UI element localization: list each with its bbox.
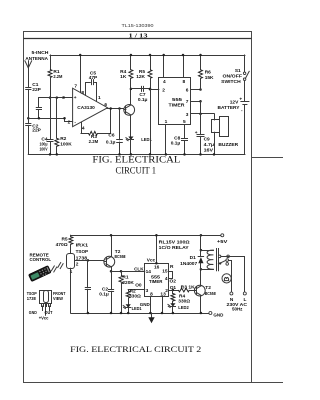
svg-text:1: 1 bbox=[165, 119, 168, 125]
svg-text:CA3130: CA3130 bbox=[77, 105, 95, 111]
capacitor C1 (circuit2, unlabeled) bbox=[87, 260, 89, 287]
svg-text:C8: C8 bbox=[174, 135, 180, 141]
capacitor C4 electrolytic bbox=[50, 98, 52, 140]
svg-text:330Ω: 330Ω bbox=[178, 299, 190, 305]
capacitor C8 on pin5 bbox=[184, 125, 186, 139]
svg-text:5: 5 bbox=[183, 119, 186, 125]
svg-text:555: 555 bbox=[172, 97, 182, 103]
svg-text:BUZZER: BUZZER bbox=[218, 142, 238, 148]
svg-text:R2: R2 bbox=[130, 289, 136, 295]
svg-text:1K: 1K bbox=[120, 74, 127, 80]
svg-text:VIEW: VIEW bbox=[53, 296, 63, 302]
svg-text:0.1μ: 0.1μ bbox=[106, 140, 116, 146]
buzzer BZ1 bbox=[212, 120, 220, 133]
svg-text:TSOP: TSOP bbox=[76, 249, 89, 255]
svg-text:CIRCUIT 1: CIRCUIT 1 bbox=[116, 167, 157, 177]
svg-text:1C/O RELAY: 1C/O RELAY bbox=[159, 245, 190, 251]
svg-text:47P: 47P bbox=[89, 75, 98, 81]
wire: circuit2 ground bottom rail bbox=[71, 313, 209, 315]
svg-text:R2: R2 bbox=[60, 136, 66, 142]
svg-text:2: 2 bbox=[76, 262, 79, 268]
wire op-amp pin3 input bbox=[39, 97, 73, 99]
wire op-amp pin4 down bbox=[81, 122, 83, 133]
svg-text:R1: R1 bbox=[122, 275, 128, 281]
wire TSOP gnd pin down bbox=[70, 268, 72, 313]
svg-text:FIG. ELECTRICAL: FIG. ELECTRICAL bbox=[92, 155, 180, 165]
wire Q1 collector up bbox=[130, 89, 132, 105]
svg-text:R: R bbox=[170, 264, 174, 270]
resistor R4 bbox=[130, 55, 132, 70]
svg-text:TIMER: TIMER bbox=[149, 279, 163, 285]
wire pole contact to lamp/N bbox=[228, 261, 231, 293]
terminal N bbox=[230, 292, 233, 295]
antenna symbol bbox=[25, 61, 28, 68]
svg-text:L: L bbox=[244, 297, 247, 303]
capacitor C1 bbox=[26, 87, 31, 89]
svg-text:+Vcc: +Vcc bbox=[39, 315, 49, 321]
svg-text:T2: T2 bbox=[115, 249, 121, 255]
capacitor C9 electrolytic bbox=[200, 101, 202, 134]
svg-text:+: + bbox=[195, 131, 198, 136]
resistor R1 220K bbox=[120, 270, 123, 273]
wire output feedback down bbox=[110, 109, 112, 134]
svg-text:1N4007: 1N4007 bbox=[180, 261, 197, 267]
svg-text:3: 3 bbox=[146, 288, 149, 294]
wire antenna down bbox=[28, 68, 30, 87]
svg-text:50Hz: 50Hz bbox=[232, 306, 243, 312]
svg-text:15K: 15K bbox=[205, 75, 214, 81]
diode D1 1N4007 bbox=[200, 250, 202, 256]
svg-text:6: 6 bbox=[186, 88, 189, 94]
svg-text:8: 8 bbox=[81, 90, 84, 96]
svg-text:O0: O0 bbox=[135, 283, 142, 289]
wire R1 to pin3 node bbox=[50, 78, 52, 98]
IR beam marks bbox=[51, 266, 54, 271]
IC 555 timer (circuit 1) bbox=[159, 78, 191, 125]
svg-text:1738: 1738 bbox=[27, 296, 36, 302]
svg-text:22P: 22P bbox=[32, 87, 41, 93]
wire IC pin3 output O0 bbox=[128, 289, 145, 291]
wire pin2 node to 555 and ground bbox=[150, 89, 159, 91]
relay coil bbox=[201, 250, 214, 252]
svg-text:C6: C6 bbox=[108, 133, 114, 139]
svg-text:1: 1 bbox=[98, 95, 101, 101]
terminal GND (mains side) bbox=[209, 312, 212, 315]
wire input rail to pin2 jog bbox=[28, 119, 72, 122]
wire TSOP out to Q2 base bbox=[75, 260, 104, 262]
wire Q3 collector up to relay bbox=[200, 269, 202, 285]
svg-text:GND: GND bbox=[213, 313, 223, 319]
svg-text:IRX1: IRX1 bbox=[76, 243, 89, 249]
svg-text:1 / 13: 1 / 13 bbox=[129, 33, 148, 40]
svg-text:4.7μ: 4.7μ bbox=[204, 142, 215, 148]
resistor R5 470ohm bbox=[70, 235, 72, 236]
svg-text:16V: 16V bbox=[204, 147, 214, 153]
wire 555 pin8 to rail bbox=[183, 55, 185, 77]
transistor Q1 driver bbox=[124, 105, 135, 116]
svg-text:OUT: OUT bbox=[45, 310, 53, 316]
svg-text:RL15V 100Ω: RL15V 100Ω bbox=[159, 240, 190, 246]
LED1 bbox=[128, 137, 133, 140]
svg-text:C9: C9 bbox=[204, 137, 210, 143]
svg-text:N: N bbox=[230, 297, 234, 303]
terminal +5V bbox=[221, 234, 224, 237]
TSOP pins bbox=[42, 304, 44, 307]
svg-text:2.2M: 2.2M bbox=[89, 139, 99, 145]
node: antenna/input rail junction bbox=[27, 117, 30, 120]
svg-text:100K: 100K bbox=[60, 141, 72, 147]
svg-text:Vcc: Vcc bbox=[147, 257, 156, 263]
svg-text:D1: D1 bbox=[190, 255, 196, 261]
svg-text:15: 15 bbox=[162, 269, 168, 275]
resistor R3 bbox=[81, 133, 89, 135]
wire 555 pin1 to ground bbox=[165, 125, 167, 155]
capacitor C3 (unlabeled) bbox=[38, 98, 40, 108]
capacitor C5 compensation loop bbox=[86, 83, 91, 96]
terminal L bbox=[243, 292, 246, 295]
wire Q2 collector down / clock node bbox=[111, 267, 113, 272]
svg-text:S1: S1 bbox=[235, 68, 241, 74]
IC U2 decade counter (drawn as 555 TIMER) bbox=[145, 264, 169, 297]
remote control handset graphic bbox=[28, 266, 51, 282]
svg-text:12V: 12V bbox=[230, 100, 239, 106]
wire 555 pin3 output bbox=[191, 113, 214, 115]
svg-text:GND: GND bbox=[140, 302, 150, 308]
svg-text:ON/OFF: ON/OFF bbox=[223, 73, 243, 79]
svg-text:LED2: LED2 bbox=[178, 305, 189, 311]
relay RL1 coil + diode D1 bbox=[200, 234, 203, 237]
LED2 bbox=[172, 301, 174, 303]
wire IC pin2 output O1 bbox=[169, 290, 179, 292]
wire IC pin8 to ground bbox=[150, 296, 152, 313]
svg-text:8: 8 bbox=[182, 79, 185, 85]
svg-text:0.1μ: 0.1μ bbox=[171, 141, 181, 147]
svg-text:100V: 100V bbox=[40, 146, 49, 152]
svg-text:BC558: BC558 bbox=[205, 291, 216, 297]
wire clock to IC pin14 bbox=[111, 271, 145, 273]
wire NO contact to L terminal bbox=[221, 257, 245, 293]
wire op-amp pin7 to +V rail bbox=[80, 55, 82, 93]
svg-text:2: 2 bbox=[162, 88, 165, 94]
battery B1 12V bbox=[244, 80, 246, 101]
svg-text:O2: O2 bbox=[170, 279, 177, 285]
wire IC pin13 to ground bbox=[162, 296, 164, 313]
svg-text:6: 6 bbox=[104, 102, 107, 108]
svg-text:+: + bbox=[239, 98, 242, 103]
relay core bbox=[216, 249, 218, 271]
wire op-amp output to transistor base bbox=[107, 108, 124, 110]
wire Q3 emitter to ground bbox=[200, 296, 202, 313]
svg-text:4: 4 bbox=[165, 276, 168, 282]
capacitor C7 bbox=[131, 88, 150, 90]
op-amp U1 CA3130 bbox=[73, 88, 108, 127]
wire Q1 emitter down to LED1 bbox=[130, 115, 132, 136]
svg-text:220K: 220K bbox=[122, 280, 134, 286]
svg-text:+5V: +5V bbox=[217, 239, 228, 245]
svg-text:R3 1K: R3 1K bbox=[181, 284, 196, 290]
svg-text:3: 3 bbox=[62, 95, 65, 101]
svg-text:13: 13 bbox=[160, 292, 166, 298]
transistor Q3 BC558 (right) bbox=[194, 285, 205, 296]
svg-text:CLK: CLK bbox=[134, 267, 144, 273]
wire 555 pin7 bbox=[191, 101, 201, 103]
svg-text:3: 3 bbox=[186, 112, 189, 118]
svg-text:TL15-130390: TL15-130390 bbox=[122, 23, 155, 28]
IR receiver IRX1 TSOP1738 bbox=[67, 254, 75, 269]
relay contacts bbox=[218, 255, 221, 258]
svg-text:4: 4 bbox=[163, 79, 166, 85]
ground arrow symbol bbox=[151, 313, 153, 318]
resistor R2 bbox=[56, 96, 59, 99]
resistor R2 330ohm bbox=[128, 290, 130, 291]
LED1 (circuit 2) bbox=[128, 298, 130, 304]
svg-text:TIMER: TIMER bbox=[169, 103, 186, 109]
svg-text:5-INCH: 5-INCH bbox=[32, 50, 50, 56]
svg-text:14: 14 bbox=[146, 269, 152, 275]
svg-text:CONTROL: CONTROL bbox=[30, 257, 52, 263]
wire: circuit1 ground bottom rail bbox=[28, 154, 245, 156]
resistor R5 12K bbox=[150, 55, 152, 70]
wire 555 pin4 to rail bbox=[163, 55, 165, 77]
wire 555 pin6 bbox=[191, 89, 201, 91]
svg-text:4: 4 bbox=[82, 126, 85, 132]
svg-text:2.2M: 2.2M bbox=[53, 74, 62, 80]
capacitor C6 bbox=[119, 109, 121, 140]
transistor Q2 BC558 (left) bbox=[104, 256, 115, 267]
wire: circuit2 +5V top rail bbox=[71, 235, 221, 237]
svg-text:FIG. ELECTRICAL CIRCUIT 2: FIG. ELECTRICAL CIRCUIT 2 bbox=[70, 344, 201, 354]
wire C1 to input rail bbox=[28, 89, 30, 118]
capacitor C2 bbox=[28, 118, 30, 123]
svg-text:330Ω: 330Ω bbox=[129, 294, 141, 300]
switch S1 on/off bbox=[244, 55, 246, 72]
resistor R4 330ohm bbox=[172, 290, 174, 294]
svg-text:BC558: BC558 bbox=[115, 254, 126, 260]
svg-text:+: + bbox=[74, 96, 77, 101]
svg-text:0.1μ: 0.1μ bbox=[99, 292, 109, 298]
svg-text:GND: GND bbox=[29, 310, 37, 316]
wire Q2 emitter to +5V rail bbox=[111, 235, 113, 256]
resistor R1 bbox=[50, 55, 52, 70]
wire Vcc pin16 to +5V rail bbox=[156, 235, 158, 263]
capacitor C2 0.1u bbox=[111, 271, 113, 289]
svg-text:2: 2 bbox=[68, 119, 71, 125]
svg-text:7: 7 bbox=[74, 83, 77, 89]
svg-text:7: 7 bbox=[186, 99, 189, 105]
svg-text:T2: T2 bbox=[205, 285, 211, 291]
svg-text:R5: R5 bbox=[61, 236, 67, 242]
node R1/pin3 wire bbox=[49, 96, 52, 99]
wire C2 to ground bbox=[28, 125, 30, 154]
svg-text:16: 16 bbox=[154, 264, 160, 270]
wire: circuit1 +V top rail bbox=[50, 55, 245, 57]
svg-text:R6: R6 bbox=[205, 69, 211, 75]
lamp L1 bbox=[222, 274, 231, 283]
svg-text:0.1μ: 0.1μ bbox=[138, 97, 148, 103]
svg-text:470Ω: 470Ω bbox=[56, 242, 68, 248]
resistor R3 1K bbox=[178, 288, 189, 292]
svg-text:SWITCH: SWITCH bbox=[221, 79, 241, 85]
svg-text:22P: 22P bbox=[32, 128, 41, 134]
svg-text:BATTERY: BATTERY bbox=[218, 105, 241, 111]
resistor R6 bbox=[200, 55, 202, 70]
svg-text:12K: 12K bbox=[136, 74, 145, 80]
wire reset loop pin15 to pin4 bbox=[169, 272, 173, 279]
sheet frame box bbox=[24, 32, 284, 383]
